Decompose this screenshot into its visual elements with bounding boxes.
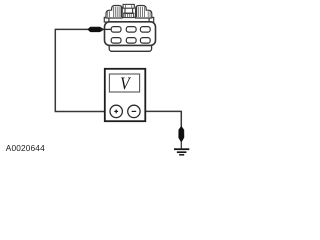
voltmeter V1 body — [105, 69, 146, 121]
ground stud bolt — [179, 126, 184, 142]
wire from voltmeter - terminal to ground stud — [140, 111, 181, 128]
voltmeter - terminal — [128, 105, 140, 117]
pin 3 — [140, 27, 150, 32]
wire from probe arrow left to voltmeter + terminal — [55, 29, 104, 111]
svg-text:A0020644: A0020644 — [6, 143, 45, 153]
connector C1 top cap left wing — [106, 6, 122, 19]
wire probe tip into pin 1 — [100, 28, 111, 30]
pin 6 — [140, 38, 150, 44]
connector C1 top cap center latch — [123, 4, 134, 17]
connector C1 top cap hatching — [108, 5, 150, 17]
voltmeter display — [109, 74, 139, 92]
probe arrow pointing to connector pin 1 — [88, 27, 104, 32]
svg-text:V: V — [120, 74, 131, 94]
pin 4 — [111, 38, 121, 44]
connector C1 top cap right wing — [136, 6, 152, 19]
connector C1 bottom lip — [109, 44, 151, 51]
pin 1 — [111, 27, 121, 32]
voltmeter + terminal — [110, 105, 122, 117]
ground stem wire — [180, 141, 182, 148]
connector C1 top cap base band — [104, 17, 153, 22]
connector C1 body — [105, 22, 156, 46]
ground symbol — [174, 149, 189, 155]
pin 2 — [126, 27, 136, 32]
pin 5 — [126, 38, 136, 44]
